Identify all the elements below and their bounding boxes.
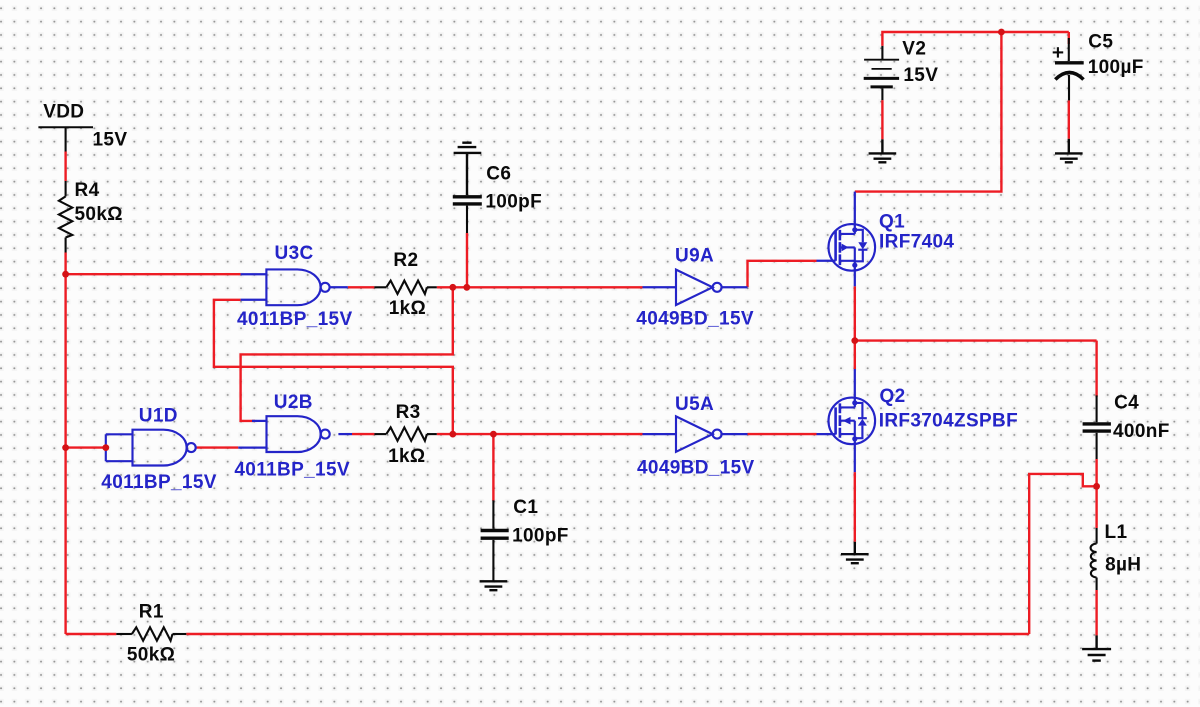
wire feedback from output node to bottom rail	[1029, 474, 1096, 634]
wire U3C output pin	[330, 286, 348, 288]
nand gate U1D	[106, 430, 196, 466]
wire R2 node to U2B input A	[241, 287, 453, 421]
svg-text:100pF: 100pF	[512, 526, 569, 547]
svg-text:15V: 15V	[903, 65, 938, 86]
wire U3C output to R2	[348, 286, 375, 288]
ground below L1	[1082, 635, 1111, 660]
svg-text:U1D: U1D	[139, 405, 178, 426]
capacitor C5 (polarized)	[1053, 38, 1084, 100]
wire C4 to output node	[1095, 459, 1097, 486]
wire left vertical rail	[64, 274, 66, 634]
wire U9A output pin	[722, 286, 748, 288]
wire U2B output to R3	[352, 433, 374, 435]
node R2 output	[449, 284, 456, 291]
wire left rail to U1D inputs	[66, 446, 106, 448]
svg-text:R2: R2	[393, 250, 418, 271]
svg-text:VDD: VDD	[43, 102, 84, 123]
svg-text:4049BD_15V: 4049BD_15V	[637, 457, 755, 478]
wire C5 upper lead	[1068, 32, 1070, 44]
svg-text:8µH: 8µH	[1105, 554, 1141, 575]
wire mid node to Q2 drain	[854, 341, 856, 369]
node C1 junction	[490, 431, 497, 438]
svg-text:U2B: U2B	[274, 392, 313, 413]
wire U9A input pin	[643, 286, 677, 288]
wire U3C input B pin	[241, 299, 267, 301]
node C6 junction	[463, 284, 470, 291]
inverter U9A	[676, 270, 722, 305]
wire Q1 gate pin	[817, 260, 836, 262]
svg-text:4011BP_15V: 4011BP_15V	[237, 309, 353, 330]
svg-text:C1: C1	[513, 497, 538, 518]
svg-text:100µF: 100µF	[1088, 57, 1144, 78]
wire Q1 source pin	[854, 265, 856, 286]
wire L1 to ground	[1095, 590, 1097, 635]
node Q1/Q2 midpoint	[851, 337, 858, 344]
node top rail junction	[998, 29, 1005, 36]
ground below C5	[1055, 139, 1083, 163]
svg-text:C6: C6	[486, 163, 511, 184]
power VDD symbol	[38, 127, 93, 151]
resistor R1	[116, 627, 186, 640]
svg-text:50kΩ: 50kΩ	[127, 645, 175, 666]
svg-text:L1: L1	[1105, 522, 1128, 543]
node R4 to U3C	[62, 271, 69, 278]
svg-text:15V: 15V	[93, 129, 128, 150]
wire Q2 drain pin	[854, 369, 856, 403]
wire V2 minus to ground	[881, 100, 883, 139]
wire U5A input pin	[643, 433, 677, 435]
wire U3C input B to R3 node	[214, 300, 453, 434]
svg-text:U3C: U3C	[275, 243, 314, 264]
wire C6 to R2 node	[466, 233, 468, 287]
wire R4 node to U3C input A	[66, 273, 241, 275]
svg-text:C5: C5	[1088, 32, 1113, 53]
wire Q2 source pin	[854, 439, 856, 472]
wire R3 to U5A input	[437, 433, 643, 435]
capacitor C1	[481, 500, 509, 581]
svg-text:50kΩ: 50kΩ	[75, 204, 123, 225]
wire top rail to Q1 drain	[855, 32, 1002, 192]
wire R4 bottom to rail junction	[64, 253, 66, 275]
ground above C6 (flipped)	[454, 143, 482, 195]
wire V2 top rail	[882, 32, 1068, 46]
wire U2B input A pin	[252, 420, 267, 422]
wire Q1 drain pin	[854, 192, 856, 230]
wire U5A output to Q2 gate	[748, 433, 817, 435]
transistor Q2	[829, 398, 876, 445]
wire U5A output pin	[722, 433, 748, 435]
svg-text:Q1: Q1	[879, 211, 905, 232]
nand gate U3C	[266, 269, 329, 305]
resistor R3	[374, 427, 436, 440]
ground below V2	[869, 139, 897, 162]
svg-text:4049BD_15V: 4049BD_15V	[636, 309, 754, 330]
wire R3 node to C1	[492, 434, 494, 501]
wire R1 to feedback corner	[186, 633, 1029, 635]
wire Q2 gate pin	[817, 433, 836, 435]
svg-text:400nF: 400nF	[1113, 421, 1170, 442]
capacitor C6	[453, 197, 482, 233]
wire VDD stem to R4	[64, 152, 66, 182]
node left rail U1D	[62, 444, 69, 451]
wire Q2 source to ground	[854, 472, 856, 542]
wire Q1 source to mid node	[854, 286, 856, 340]
inverter U5A	[676, 416, 722, 451]
nand gate U2B	[267, 416, 330, 452]
transistor Q1	[829, 224, 876, 271]
svg-text:4011BP_15V: 4011BP_15V	[101, 472, 217, 493]
wire U2B input B pin	[238, 446, 266, 448]
svg-text:100pF: 100pF	[485, 192, 542, 213]
svg-text:1kΩ: 1kΩ	[388, 446, 425, 467]
battery V2	[864, 46, 899, 100]
capacitor C4	[1083, 395, 1111, 459]
wire U2B output pin	[338, 433, 352, 435]
node output to L1	[1093, 483, 1100, 490]
svg-text:V2: V2	[902, 38, 926, 59]
inductor L1	[1091, 528, 1097, 590]
wire R2 to U9A input	[437, 286, 643, 288]
wire C5 lower to ground	[1068, 100, 1070, 138]
wire bottom horizontal through R1	[66, 633, 117, 635]
resistor R2	[374, 281, 436, 294]
resistor R4	[59, 181, 72, 253]
node U1D tied inputs	[102, 444, 109, 451]
wire U3C input A pin	[241, 273, 267, 275]
node R3 output	[449, 431, 456, 438]
wire C4 upper lead	[1095, 341, 1097, 397]
svg-text:U9A: U9A	[675, 245, 714, 266]
svg-text:4011BP_15V: 4011BP_15V	[234, 460, 350, 481]
ground below Q2 source	[841, 542, 869, 563]
wire U1D output to U2B input B	[197, 446, 239, 448]
svg-text:C4: C4	[1114, 392, 1139, 413]
svg-text:Q2: Q2	[880, 386, 906, 407]
wire output node to L1	[1095, 486, 1097, 528]
svg-text:R3: R3	[396, 402, 421, 423]
svg-text:IRF7404: IRF7404	[879, 232, 954, 253]
svg-text:U5A: U5A	[675, 394, 714, 415]
svg-text:IRF3704ZSPBF: IRF3704ZSPBF	[879, 411, 1018, 432]
svg-text:R4: R4	[75, 180, 100, 201]
wire U9A output to Q1 gate	[748, 261, 817, 288]
svg-text:R1: R1	[139, 602, 164, 623]
ground below C1	[480, 581, 508, 590]
wire mid node to C4	[855, 339, 1097, 341]
svg-text:1kΩ: 1kΩ	[389, 298, 426, 319]
